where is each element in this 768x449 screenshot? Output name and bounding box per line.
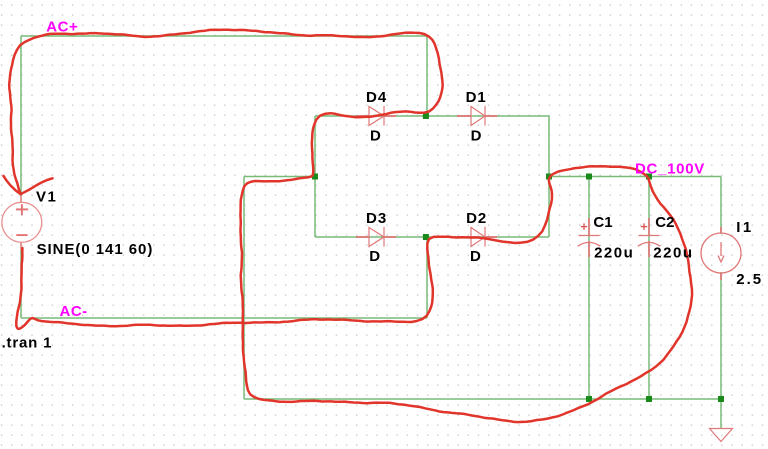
wire bridge mid horizontal y176 — [244, 176, 315, 178]
junction C1 bottom — [586, 396, 592, 402]
wire right bridge vertical x549 — [548, 116, 550, 237]
diode D4 — [356, 106, 396, 126]
junction C1 top — [586, 174, 592, 180]
diode D2 — [457, 227, 497, 247]
junction at left bridge x315 y176 — [312, 174, 318, 180]
svg-text:D3: D3 — [366, 210, 387, 227]
wire DC bus down to I1 top — [720, 177, 722, 235]
V1 plus sign — [16, 204, 28, 215]
svg-text:AC+: AC+ — [46, 19, 78, 36]
wire long left vertical x244 — [243, 177, 245, 400]
wire bottom horizontal — [244, 398, 721, 400]
junction at right bridge x549 bus — [546, 174, 552, 180]
svg-text:D4: D4 — [366, 89, 387, 106]
wire AC- horizontal — [21, 317, 427, 319]
junction at D4/D1 row and AC+ drop — [423, 113, 429, 119]
svg-text:D: D — [471, 128, 482, 145]
capacitor C2 — [638, 218, 660, 257]
C1 plus polarity — [581, 223, 587, 229]
svg-text:DC_100V: DC_100V — [635, 161, 705, 178]
annotation red current path return loop — [16, 166, 649, 329]
annotation red current path outer loop — [9, 30, 692, 422]
svg-text:D1: D1 — [466, 89, 487, 106]
voltage source V1 — [2, 196, 42, 250]
wire AC+ top horizontal — [21, 35, 427, 37]
junction C2 bottom — [646, 396, 652, 402]
wire I1 bottom down — [720, 272, 722, 399]
wire AC+ down to D4/D1 row — [426, 36, 428, 116]
svg-text:D: D — [369, 248, 380, 265]
wire ground stub — [720, 399, 722, 429]
C2 plus polarity — [641, 223, 647, 229]
svg-text:2.5: 2.5 — [736, 271, 763, 288]
svg-text:C1: C1 — [593, 214, 612, 231]
svg-text:220u: 220u — [594, 245, 634, 262]
svg-text:D: D — [470, 248, 481, 265]
junction I1 bottom wire — [718, 396, 724, 402]
annotation red arrowhead right barb at V1 — [20, 178, 52, 194]
svg-text:C2: C2 — [655, 214, 674, 231]
svg-text:I1: I1 — [736, 219, 753, 236]
wire DC bus horizontal — [549, 176, 721, 178]
diode D3 — [356, 227, 396, 247]
capacitor C1 — [578, 218, 600, 257]
svg-text:SINE(0 141 60): SINE(0 141 60) — [37, 241, 154, 258]
annotation red arrowhead left barb at V1 — [4, 176, 21, 194]
wire AC- up to D3/D2 row — [426, 237, 428, 318]
diode D1 — [457, 106, 497, 126]
svg-text:AC-: AC- — [60, 303, 88, 320]
V1 minus sign — [16, 234, 27, 236]
wire AC+ left vertical to V1 top — [20, 36, 22, 203]
wire left bridge vertical x315 — [314, 116, 316, 237]
ground symbol — [710, 429, 733, 442]
svg-text:D: D — [370, 128, 381, 145]
wire C1 vertical — [588, 177, 590, 400]
wire C2 vertical — [648, 177, 650, 400]
svg-text:D2: D2 — [466, 210, 487, 227]
wire V1 bottom to AC- — [20, 242, 22, 318]
svg-text:V1: V1 — [36, 189, 57, 206]
wire D3/D2 row horizontal — [315, 236, 549, 238]
wire D4/D1 row horizontal — [315, 115, 549, 117]
svg-text:.tran 1: .tran 1 — [2, 334, 53, 351]
current source I1 — [701, 227, 741, 280]
junction C2 top — [646, 174, 652, 180]
svg-text:220u: 220u — [653, 245, 693, 262]
junction at D3/D2 row and AC- riser — [423, 234, 429, 240]
